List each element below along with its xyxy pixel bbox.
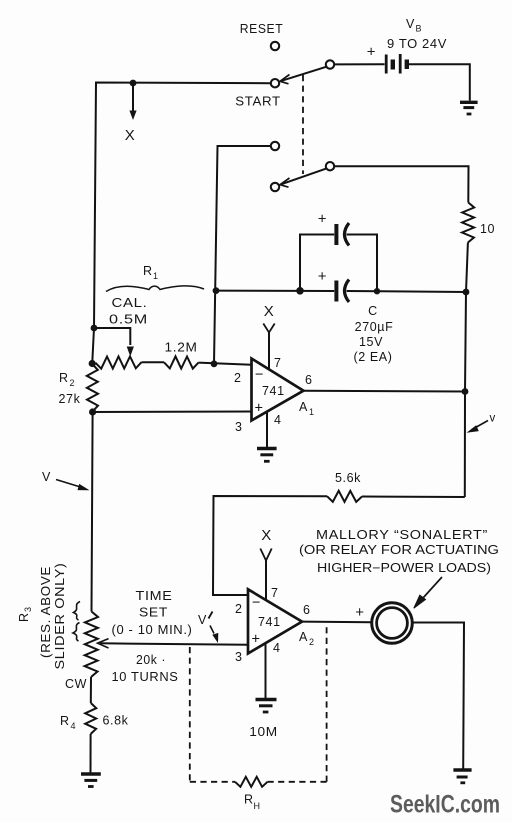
svg-text:MALLORY “SONALERT”: MALLORY “SONALERT” [316, 528, 488, 542]
wire 5.6k to A2 pin2 [213, 496, 327, 595]
svg-text:4: 4 [273, 641, 281, 655]
svg-text:TIME: TIME [136, 589, 173, 603]
svg-text:15V: 15V [359, 335, 383, 349]
wire A2 output [302, 621, 371, 624]
switch S2 arm [282, 169, 327, 185]
wire right rail [465, 243, 468, 498]
battery B1 [386, 54, 407, 74]
svg-text:X: X [125, 127, 136, 144]
svg-text:1: 1 [153, 271, 158, 281]
wire S2 contact to node rail [214, 146, 271, 364]
svg-text:7: 7 [274, 356, 282, 370]
svg-text:X: X [264, 303, 275, 320]
junction A1 out/right rail [462, 388, 469, 395]
ground A1 [257, 449, 277, 462]
svg-text:6: 6 [305, 373, 313, 387]
svg-text:6: 6 [303, 603, 311, 617]
wire pot wiper feed [93, 328, 130, 345]
junction cap bus/right rail [463, 289, 470, 296]
junction R2 bottom [89, 408, 96, 415]
wire top-left horizontal and left rail [92, 83, 270, 365]
wire capacitor upper branch [300, 235, 334, 291]
wire capacitor bus [214, 290, 334, 292]
svg-text:5.6k: 5.6k [335, 471, 361, 485]
svg-text:7: 7 [271, 586, 279, 600]
svg-text:+: + [355, 604, 364, 621]
switch S1 start contact [271, 79, 279, 87]
node X arrow [132, 86, 134, 112]
wire A1 pin3 [93, 411, 252, 414]
svg-text:R: R [17, 612, 31, 622]
capacitor C lower [334, 281, 338, 302]
wire S2 pole to right rail [334, 166, 468, 202]
svg-text:V: V [42, 470, 51, 484]
svg-text:C: C [368, 304, 378, 318]
resistor 1.2M [164, 356, 199, 368]
svg-text:−: − [255, 367, 263, 383]
svg-text:RESET: RESET [240, 22, 284, 36]
resistor 5.6k [327, 491, 362, 502]
junction node rail/cap bus [213, 287, 220, 294]
ground right [453, 770, 471, 783]
node X junction dot [130, 80, 137, 87]
switch S1 reset contact [271, 42, 279, 50]
switch S2 lower contact [271, 183, 279, 191]
wire A2 pin3 from wiper [100, 643, 248, 645]
svg-text:4: 4 [274, 413, 282, 427]
svg-text:2: 2 [234, 371, 242, 385]
svg-text:270µF: 270µF [355, 320, 394, 334]
svg-text:+: + [367, 43, 376, 60]
switch S1 arm [282, 67, 327, 81]
op-amp A2 pin4 wire [265, 640, 267, 699]
svg-text:+: + [252, 632, 260, 648]
svg-text:v: v [490, 413, 496, 425]
wire R4 to ground [90, 734, 92, 773]
wire right rail to 5.6k [362, 496, 465, 499]
R3 braces [74, 602, 81, 621]
svg-text:(OR RELAY FOR ACTUATING: (OR RELAY FOR ACTUATING [299, 543, 499, 557]
svg-text:SLIDER ONLY): SLIDER ONLY) [53, 563, 67, 670]
RH dashed feedback [189, 647, 191, 782]
ground R4 [81, 774, 101, 787]
resistor RH [235, 777, 268, 787]
sonalert LS1 [372, 603, 413, 644]
svg-text:CAL.: CAL. [112, 295, 148, 310]
svg-text:(RES. ABOVE: (RES. ABOVE [39, 566, 53, 658]
svg-text:R: R [59, 371, 69, 385]
svg-text:A: A [299, 400, 308, 414]
R1 brace [106, 286, 204, 292]
junction rail/1.2M [211, 360, 218, 367]
svg-text:6.8k: 6.8k [103, 714, 129, 728]
potentiometer R3 20k [85, 612, 98, 678]
svg-text:V: V [198, 613, 207, 627]
svg-text:−: − [252, 595, 260, 611]
svg-text:1.2M: 1.2M [165, 341, 198, 355]
svg-text:2: 2 [309, 637, 314, 647]
svg-text:R: R [60, 714, 70, 728]
svg-text:B: B [416, 24, 422, 34]
ground A2 [256, 700, 277, 713]
svg-text:SET: SET [139, 606, 168, 620]
svg-text:2: 2 [70, 378, 75, 388]
svg-text:R: R [143, 264, 153, 278]
wire pot to 1.2M [142, 361, 165, 363]
svg-text:10 TURNS: 10 TURNS [112, 670, 179, 684]
wire left rail mid [92, 412, 93, 612]
switch S2 pole [326, 162, 334, 170]
wire 1.2M to A1 pin2 [199, 363, 252, 365]
switch S2 upper contact [271, 142, 279, 150]
svg-text:10M: 10M [249, 724, 278, 739]
svg-text:9 TO 24V: 9 TO 24V [387, 37, 447, 51]
wire sonalert to ground [413, 623, 465, 770]
svg-text:START: START [235, 95, 281, 109]
op-amp U2 741 [248, 589, 302, 653]
svg-text:2: 2 [235, 602, 243, 616]
svg-text:3: 3 [235, 420, 243, 434]
svg-text:+: + [318, 268, 327, 285]
switch S1 pole [326, 60, 334, 68]
svg-text:3: 3 [23, 607, 33, 612]
svg-text:(0 - 10 MIN.): (0 - 10 MIN.) [112, 623, 193, 637]
svg-text:(2 EA): (2 EA) [353, 350, 392, 364]
svg-text:HIGHER−POWER LOADS): HIGHER−POWER LOADS) [317, 561, 491, 575]
potentiometer CAL 0.5M [96, 356, 142, 368]
svg-text:H: H [254, 801, 261, 811]
resistor R2 [87, 364, 98, 412]
svg-text:10: 10 [480, 222, 495, 236]
wire R3 to R4 [90, 677, 92, 703]
op-amp A1 pin4 wire [266, 408, 268, 448]
svg-text:X: X [261, 527, 272, 544]
svg-text:741: 741 [262, 384, 285, 398]
svg-text:27k: 27k [59, 392, 81, 406]
wire battery to ground [409, 64, 470, 100]
svg-text:20k ·: 20k · [136, 653, 166, 667]
svg-text:1: 1 [309, 407, 314, 417]
junction R2 top [89, 360, 96, 367]
svg-text:CW: CW [65, 677, 87, 691]
svg-text:R: R [244, 793, 254, 807]
svg-text:+: + [318, 211, 327, 228]
svg-text:A: A [299, 630, 308, 644]
wire S1 pole to battery [334, 63, 384, 65]
arrow text to sonalert [418, 577, 442, 604]
resistor R4 [85, 703, 96, 734]
svg-text:0.5M: 0.5M [109, 312, 148, 327]
svg-text:4: 4 [71, 721, 76, 731]
switch gang dashed link [302, 75, 304, 174]
svg-text:741: 741 [258, 615, 281, 629]
capacitor C upper [334, 224, 338, 245]
junction cap branch left [296, 287, 304, 295]
svg-text:SeekIC.com: SeekIC.com [390, 791, 500, 819]
junction cap branch right [374, 288, 380, 294]
svg-text:+: + [255, 401, 263, 417]
svg-text:V: V [406, 17, 415, 31]
wire A1 output [304, 390, 466, 393]
svg-text:3: 3 [235, 650, 243, 664]
ground battery [460, 102, 478, 114]
op-amp U1 741 [252, 359, 304, 421]
resistor 10 [462, 203, 474, 243]
